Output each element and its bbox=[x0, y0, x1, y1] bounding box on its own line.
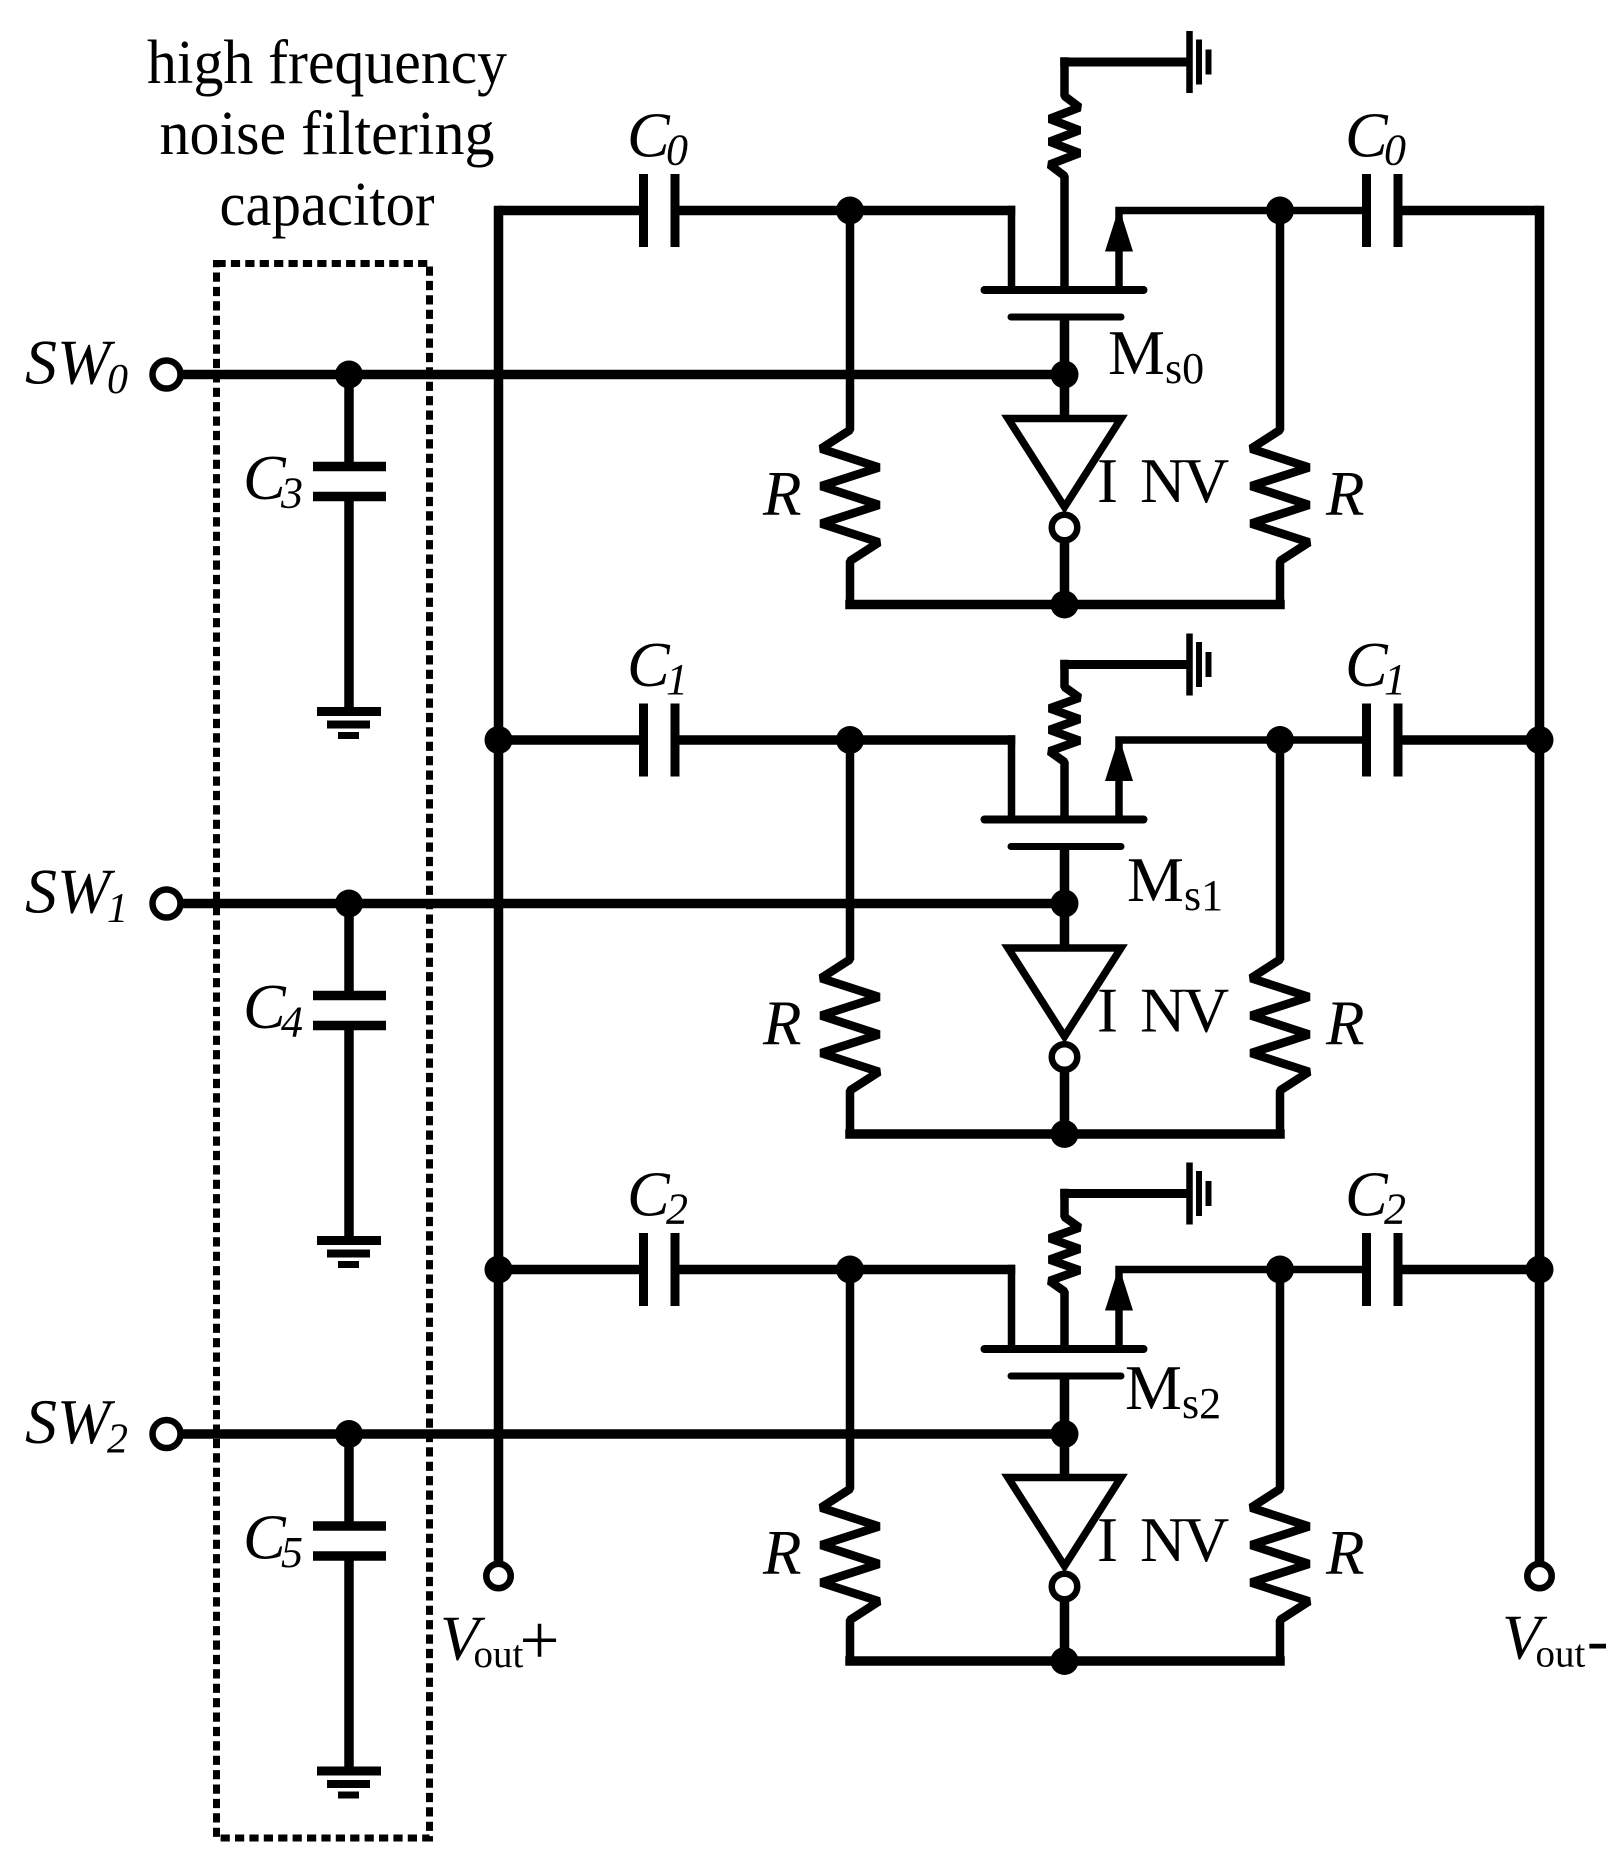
resistor R (right, cell 0) bbox=[1251, 211, 1309, 605]
svg-text:I: I bbox=[1097, 1505, 1118, 1575]
transistor M_s1 gate bar bbox=[1011, 843, 1121, 850]
wire: C2 right plate to Vout- rail bbox=[1403, 1265, 1540, 1275]
transistor M_s0 gate bar bbox=[1011, 314, 1121, 321]
capacitor C4 (filter) bbox=[344, 904, 354, 992]
wire: left bus of cell 1 bbox=[499, 735, 640, 745]
svg-text:SW: SW bbox=[25, 327, 116, 398]
wire: M_s2 gate to inverter input bbox=[1060, 1376, 1070, 1478]
wire: bottom tie line (cell 1) bbox=[845, 1129, 1285, 1139]
svg-text:out: out bbox=[474, 1633, 524, 1676]
ground (gate bias, cell 0) bbox=[1060, 58, 1186, 67]
transistor M_s1 top bar bbox=[985, 816, 1144, 824]
svg-text:R: R bbox=[1325, 459, 1364, 529]
svg-text:high frequency: high frequency bbox=[147, 29, 507, 97]
resistor R (right, cell 2) bbox=[1251, 1270, 1309, 1662]
svg-text:capacitor: capacitor bbox=[220, 171, 435, 239]
junction: Vout- rail tap (cell 1) bbox=[1526, 726, 1554, 754]
svg-text:-: - bbox=[1587, 1604, 1608, 1675]
wire: M_s1 source to right node with bulk arrow bbox=[1119, 740, 1363, 820]
svg-text:V: V bbox=[1183, 1504, 1229, 1575]
wire: M_s0 source to right node with bulk arrow bbox=[1119, 211, 1363, 291]
wire: C1 right plate to Vout- rail bbox=[1403, 735, 1540, 745]
ground (gate bias, cell 1) bbox=[1060, 660, 1186, 669]
svg-text:M: M bbox=[1127, 844, 1184, 915]
junction: inverter output node (cell 1) bbox=[1051, 1120, 1079, 1148]
junction: inverter output node (cell 2) bbox=[1051, 1647, 1079, 1675]
terminal SW1 bbox=[153, 890, 181, 918]
terminal SW0 bbox=[153, 361, 181, 389]
svg-text:3: 3 bbox=[280, 469, 303, 518]
terminal SW2 bbox=[153, 1420, 181, 1448]
wire: inverter output to bottom node (cell 0) bbox=[1060, 541, 1070, 605]
svg-text:+: + bbox=[520, 1602, 560, 1680]
svg-text:2: 2 bbox=[107, 1417, 128, 1463]
wire: C0 left plate to M_s0 drain bbox=[680, 206, 1016, 216]
svg-text:I: I bbox=[1097, 976, 1118, 1046]
capacitor C3 (filter) bbox=[344, 375, 354, 463]
wire: SW0 input line bbox=[182, 370, 1065, 380]
svg-text:R: R bbox=[1325, 989, 1364, 1059]
svg-text:SW: SW bbox=[25, 856, 116, 927]
wire: M_s2 source to right node with bulk arrow bbox=[1119, 1270, 1363, 1350]
svg-text:0: 0 bbox=[107, 357, 128, 403]
wire: M_s1 gate to inverter input bbox=[1060, 847, 1070, 949]
wire: left bus of cell 2 bbox=[499, 1265, 640, 1275]
wire: SW2 input line bbox=[182, 1429, 1065, 1439]
capacitor C1 (right) bbox=[1362, 704, 1371, 777]
svg-text:SW: SW bbox=[25, 1386, 116, 1457]
svg-text:1: 1 bbox=[666, 655, 688, 704]
svg-text:C: C bbox=[1345, 100, 1389, 171]
inverter INV (cell 2) bbox=[1008, 1478, 1121, 1567]
junction: left node dot (cell 0) bbox=[836, 197, 864, 225]
dashed box: high frequency noise filtering capacitor group bbox=[217, 264, 430, 1839]
resistor R (left, cell 1) bbox=[821, 740, 879, 1134]
wire: SW1 input line bbox=[182, 899, 1065, 909]
wire: C2 left plate to M_s2 drain bbox=[680, 1265, 1016, 1275]
wire: C0 right plate to Vout- rail bbox=[1403, 206, 1540, 216]
resistor (gate bias, cell 2) bbox=[1050, 1189, 1080, 1345]
terminal Vout- bbox=[1527, 1564, 1551, 1588]
wire: M_s0 gate to inverter input bbox=[1060, 317, 1070, 419]
svg-text:1: 1 bbox=[107, 886, 128, 932]
junction: gate / SW2 node bbox=[1051, 1420, 1079, 1448]
svg-text:C: C bbox=[627, 629, 671, 700]
junction: left node dot (cell 1) bbox=[836, 726, 864, 754]
transistor M_s2 gate bar bbox=[1011, 1373, 1121, 1380]
inverter INV (cell 1) bbox=[1008, 948, 1121, 1037]
svg-text:I: I bbox=[1097, 446, 1118, 516]
svg-text:R: R bbox=[762, 459, 801, 529]
svg-text:C: C bbox=[1345, 1159, 1389, 1230]
svg-text:0: 0 bbox=[666, 126, 688, 175]
capacitor C1 (left) bbox=[639, 704, 648, 777]
svg-text:0: 0 bbox=[1384, 126, 1406, 175]
junction: Vout+ rail tap (cell 2) bbox=[485, 1256, 513, 1284]
junction: Vout- rail tap (cell 2) bbox=[1526, 1256, 1554, 1284]
junction: inverter output node (cell 0) bbox=[1051, 591, 1079, 619]
junction: right node dot (cell 2) bbox=[1266, 1256, 1294, 1284]
svg-text:noise filtering: noise filtering bbox=[160, 100, 495, 168]
svg-text:N: N bbox=[1140, 446, 1186, 516]
svg-text:R: R bbox=[762, 989, 801, 1059]
wire: inverter output to bottom node (cell 2) bbox=[1060, 1600, 1070, 1662]
svg-text:2: 2 bbox=[1384, 1185, 1406, 1234]
svg-text:C: C bbox=[627, 100, 671, 171]
svg-text:s1: s1 bbox=[1184, 871, 1223, 920]
resistor (gate bias, cell 0) bbox=[1050, 57, 1080, 286]
svg-text:R: R bbox=[1325, 1518, 1364, 1588]
capacitor C0 (left) bbox=[639, 174, 648, 247]
capacitor C5 (filter) bbox=[344, 1434, 354, 1522]
wire: left bus of cell 0 bbox=[499, 206, 640, 216]
junction: gate / SW1 node bbox=[1051, 890, 1079, 918]
wire: Vout+ rail bbox=[494, 206, 504, 1564]
svg-text:R: R bbox=[762, 1518, 801, 1588]
resistor R (right, cell 1) bbox=[1251, 740, 1309, 1134]
terminal Vout+ bbox=[486, 1564, 510, 1588]
inverter INV (cell 0) bbox=[1008, 419, 1121, 508]
ground (gate bias, cell 2) bbox=[1060, 1189, 1186, 1198]
junction: SW1 / C4 node bbox=[335, 890, 363, 918]
transistor M_s0 top bar bbox=[985, 286, 1144, 294]
arrow (bulk) of M_s2 bbox=[1105, 1267, 1133, 1311]
ground (C5) bbox=[317, 1767, 381, 1776]
capacitor C2 (right) bbox=[1362, 1233, 1371, 1306]
svg-text:V: V bbox=[1183, 445, 1229, 516]
wire: bottom tie line (cell 2) bbox=[845, 1656, 1285, 1666]
junction: right node dot (cell 0) bbox=[1266, 197, 1294, 225]
wire: Vout- rail bbox=[1535, 206, 1545, 1564]
transistor M_s2 top bar bbox=[985, 1345, 1144, 1353]
svg-text:C: C bbox=[627, 1159, 671, 1230]
ground (C3) bbox=[317, 707, 381, 716]
svg-text:5: 5 bbox=[281, 1528, 303, 1577]
wire: inverter output to bottom node (cell 1) bbox=[1060, 1070, 1070, 1134]
svg-text:M: M bbox=[1108, 317, 1165, 388]
junction: SW2 / C5 node bbox=[335, 1420, 363, 1448]
svg-text:M: M bbox=[1125, 1352, 1182, 1423]
svg-text:V: V bbox=[1183, 975, 1229, 1046]
junction: SW0 / C3 node bbox=[335, 361, 363, 389]
junction: left node dot (cell 2) bbox=[836, 1256, 864, 1284]
svg-text:s2: s2 bbox=[1182, 1379, 1221, 1428]
svg-text:N: N bbox=[1140, 976, 1186, 1046]
junction: gate / SW0 node bbox=[1051, 361, 1079, 389]
svg-text:s0: s0 bbox=[1165, 344, 1204, 393]
svg-text:N: N bbox=[1140, 1505, 1186, 1575]
ground (C4) bbox=[317, 1236, 381, 1245]
arrow (bulk) of M_s1 bbox=[1105, 737, 1133, 781]
resistor R (left, cell 2) bbox=[821, 1270, 879, 1662]
svg-text:4: 4 bbox=[281, 998, 303, 1047]
wire: bottom tie line (cell 0) bbox=[845, 600, 1285, 610]
capacitor C2 (left) bbox=[639, 1233, 648, 1306]
junction: right node dot (cell 1) bbox=[1266, 726, 1294, 754]
junction: Vout+ rail tap (cell 1) bbox=[485, 726, 513, 754]
arrow (bulk) of M_s0 bbox=[1105, 208, 1133, 252]
resistor R (left, cell 0) bbox=[821, 211, 879, 605]
svg-text:out: out bbox=[1536, 1633, 1586, 1676]
svg-text:1: 1 bbox=[1384, 655, 1406, 704]
capacitor C0 (right) bbox=[1362, 174, 1371, 247]
svg-text:C: C bbox=[1345, 629, 1389, 700]
svg-text:2: 2 bbox=[666, 1185, 688, 1234]
resistor (gate bias, cell 1) bbox=[1050, 660, 1080, 816]
wire: C1 left plate to M_s1 drain bbox=[680, 735, 1016, 745]
